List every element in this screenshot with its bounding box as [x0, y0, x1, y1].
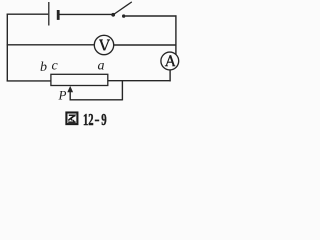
svg-text:9: 9 — [101, 110, 106, 129]
svg-text:a: a — [98, 58, 105, 73]
svg-text:P: P — [58, 87, 67, 102]
svg-text:12: 12 — [83, 110, 94, 129]
svg-text:c: c — [52, 58, 59, 73]
svg-text:b: b — [40, 60, 47, 75]
